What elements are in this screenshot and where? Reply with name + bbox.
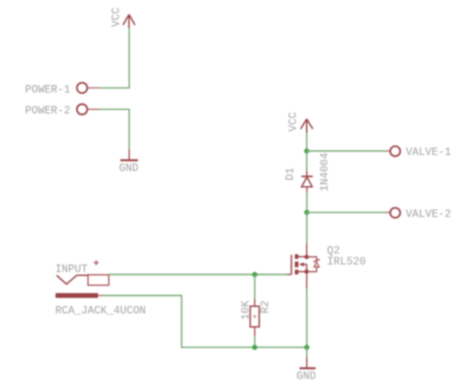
drain connection (298, 256, 306, 258)
connector RCA_JACK_4UCON (55, 260, 146, 317)
svg-text:VALVE-1: VALVE-1 (406, 147, 451, 159)
svg-text:10K: 10K (240, 300, 252, 320)
svg-text:POWER-2: POWER-2 (25, 106, 70, 118)
body arrow (299, 262, 304, 266)
svg-text:Q2: Q2 (327, 245, 340, 257)
wire jack tip to Q2 gate (109, 274, 287, 276)
pin Q2 source (306, 274, 308, 289)
svg-text:VCC: VCC (288, 112, 300, 132)
wire D1 to node VALVE-2 (306, 193, 308, 213)
junction node VCC/VALVE-1 (304, 148, 309, 153)
power flag VCC (left) (111, 7, 135, 28)
svg-text:VCC: VCC (111, 7, 123, 27)
svg-text:GND: GND (119, 163, 138, 175)
diode D1 1N4004 (285, 153, 332, 193)
pin Q2 gate (287, 274, 291, 276)
wire node to Q2 drain (306, 212, 308, 243)
wire VCC to node (306, 133, 308, 152)
power flag VCC (right) (288, 112, 313, 133)
junction node VALVE-2 (304, 210, 309, 215)
svg-text:POWER-1: POWER-1 (25, 84, 70, 96)
svg-text:1N4004: 1N4004 (320, 153, 332, 192)
resistor R2 10K (240, 275, 272, 348)
ground symbol (left) (119, 150, 138, 176)
ground symbol (right) (297, 357, 316, 383)
channel bar source (295, 270, 299, 275)
pin Q2 drain (306, 244, 308, 257)
wire node to GND (306, 347, 308, 357)
gate line (290, 255, 292, 275)
wire to VALVE-1 (307, 150, 386, 152)
source connection (298, 271, 306, 273)
pin POWER-2 (25, 104, 99, 117)
transistor Q2 IRL520 (291, 245, 365, 274)
wire Q2 source to GND node (306, 289, 308, 348)
svg-text:D1: D1 (285, 168, 297, 181)
pin POWER-1 (25, 83, 99, 97)
wire POWER-2 to GND (99, 109, 129, 149)
junction node R2 bottom (252, 345, 257, 350)
junction node GND rail (304, 345, 309, 350)
wire to VALVE-2 (307, 211, 386, 213)
pin VALVE-1 (386, 146, 451, 159)
svg-text:IRL520: IRL520 (327, 257, 366, 269)
body diode branch (307, 257, 317, 260)
wire jack sleeve to bottom rail (103, 296, 307, 348)
svg-text:INPUT: INPUT (55, 264, 88, 276)
svg-text:GND: GND (297, 371, 316, 383)
channel bar drain (295, 254, 299, 259)
svg-text:VALVE-2: VALVE-2 (406, 209, 451, 221)
svg-text:R2: R2 (260, 301, 272, 314)
wire VCC to POWER-1 (99, 28, 129, 88)
wire node to diode D1 (306, 151, 308, 171)
channel bar body (295, 262, 299, 268)
svg-text:RCA_JACK_4UCON: RCA_JACK_4UCON (55, 306, 146, 318)
pin VALVE-2 (386, 208, 451, 221)
junction node gate/R2 (252, 272, 257, 277)
